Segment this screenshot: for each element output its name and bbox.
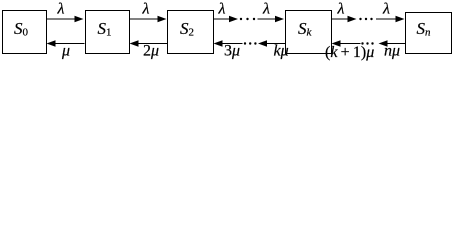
svg-text:μ: μ [61,43,70,60]
svg-text:nμ: nμ [384,43,400,60]
svg-text:S0: S0 [14,19,29,39]
state box Sn [406,13,452,54]
arrow (k+1)mu dots to Sk [332,40,361,46]
arrow lambda dots to Sk [258,16,285,22]
arrow lambda Sk to dots [332,16,357,22]
svg-text:λ: λ [142,1,150,18]
svg-text:Sk: Sk [298,19,313,39]
state box S2 [168,11,214,54]
top ellipsis dots left group [240,18,255,20]
top ellipsis dots right group [359,18,372,20]
state box S1 [86,11,130,54]
state box Sk [286,11,332,54]
svg-text:kμ: kμ [274,43,289,60]
arrow nmu Sn to dots [379,40,406,46]
svg-text:λ: λ [262,1,270,18]
arrow lambda S2 to dots [214,16,239,22]
svg-text:λ: λ [382,1,390,18]
svg-text:S2: S2 [180,19,194,39]
svg-text:3μ: 3μ [224,43,240,60]
arrow 2mu S2 to S1 [130,40,168,46]
svg-text:λ: λ [337,1,345,18]
bottom ellipsis dots left group [244,42,257,44]
arrow lambda S1 to S2 [130,16,167,22]
svg-text:Sn: Sn [417,19,432,39]
state box S0 [3,11,47,54]
svg-text:λ: λ [218,1,226,18]
bottom ellipsis dots right group [361,42,373,44]
arrow kmu Sk to dots [258,40,285,46]
svg-text:λ: λ [57,1,65,18]
svg-text:2μ: 2μ [143,43,159,60]
svg-text:S1: S1 [98,19,112,39]
arrow lambda S0 to S1 [47,16,84,22]
arrow lambda dots to Sn [376,16,405,22]
arrow 3mu dots to S2 [214,40,243,46]
svg-text:(k + 1)μ: (k + 1)μ [325,44,374,61]
arrow mu S1 to S0 [47,40,85,46]
